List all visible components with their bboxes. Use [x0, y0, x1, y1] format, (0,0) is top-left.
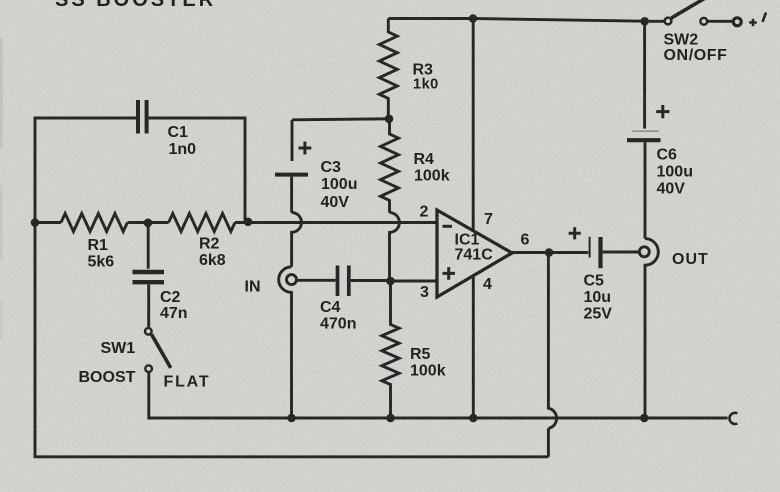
wire hop around IN terminal — [279, 267, 292, 418]
switch SW2 — [649, 20, 664, 23]
wire left side down — [35, 223, 548, 457]
wire C6 branch top — [643, 21, 646, 128]
resistor R1 — [61, 214, 127, 232]
wire main pin2 line left — [35, 221, 61, 224]
wire SW1 to ground rail — [149, 373, 292, 418]
terminal IN — [287, 275, 297, 285]
resistor R5 — [382, 281, 399, 418]
node ground/pin4 — [469, 414, 478, 423]
capacitor C2 — [133, 272, 165, 282]
resistor R2 — [169, 214, 235, 232]
wire hop feedback over ground wire — [548, 253, 556, 429]
op-amp plus symbol — [443, 267, 456, 280]
plus sign supply — [749, 19, 757, 27]
node ground/C3 — [287, 414, 296, 423]
capacitor C6 — [632, 130, 659, 132]
node R2/C1 — [244, 218, 253, 227]
resistor R4 — [381, 119, 399, 213]
wire hop C3 over pin2 wire — [292, 213, 302, 267]
wire C1 right to main wire — [149, 118, 245, 222]
wire C3 down — [290, 177, 293, 213]
wire between R1 and R2 — [127, 221, 168, 224]
op-amp minus symbol — [443, 225, 453, 228]
wire C5 to OUT — [603, 251, 639, 254]
wire C2 to SW1 — [147, 285, 150, 327]
wire feedback loop left/top/bottom — [35, 118, 136, 223]
plus sign C3 — [299, 142, 312, 155]
wire feedback vertical — [547, 428, 550, 456]
plus sign C5 — [569, 227, 581, 239]
wire C4 to pin3 node — [351, 279, 391, 282]
wire ground rail — [149, 417, 728, 420]
wire hop around OUT terminal — [645, 239, 658, 418]
capacitor C4 — [338, 266, 349, 297]
wire output pin6 — [512, 251, 588, 254]
paper grain overlay — [0, 0, 1, 1]
node R1/R2/C2 — [144, 219, 153, 228]
wire pin7 vertical — [472, 19, 475, 231]
capacitor C3 — [291, 120, 294, 161]
wire IN to C4 — [298, 279, 336, 282]
node C4/R4/R5/pin3 — [386, 277, 395, 286]
node R1 left / feedback — [31, 218, 40, 227]
scan edge streaks — [0, 38, 3, 148]
terminal OUT — [639, 247, 649, 257]
op-amp IC1 triangle — [437, 210, 512, 297]
wire C6 down — [644, 142, 647, 238]
capacitor C1 — [138, 100, 147, 134]
wire R2 to op-amp pin 2 — [235, 221, 437, 224]
wire top rail — [388, 19, 646, 22]
node ground/C6 — [640, 414, 649, 423]
node pin6 output — [545, 248, 554, 257]
resistor R3 — [379, 19, 397, 119]
node R3/R4/C3 — [385, 115, 394, 124]
node top rail pin7 — [469, 14, 478, 23]
switch SW1 — [145, 328, 152, 335]
plus sign C6 — [656, 105, 669, 118]
wire pin3 node to op-amp — [391, 280, 438, 283]
tick mark after plus — [763, 13, 767, 23]
wire pin4 — [472, 276, 475, 418]
terminal 0V right end — [729, 413, 737, 424]
capacitor C5 — [589, 237, 591, 258]
node top rail SW2/C6 — [640, 17, 649, 26]
wire C2 branch — [147, 223, 150, 269]
wire hop R4 over pin2 wire — [390, 213, 400, 281]
wire +V rail to C3 — [292, 119, 389, 120]
node ground/R5 — [386, 414, 395, 423]
